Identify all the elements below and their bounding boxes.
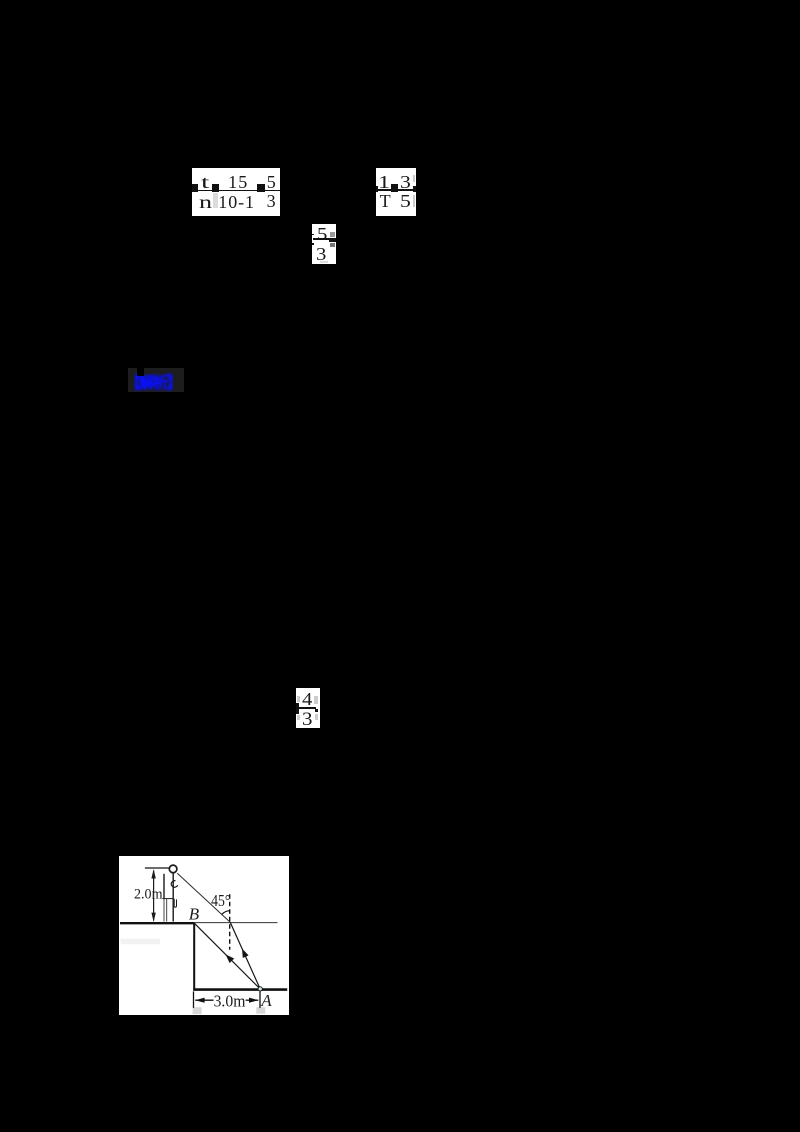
gray below bbox=[330, 243, 335, 247]
arrowhead on ray A-crossing bbox=[242, 949, 249, 959]
bottom gray strip bbox=[320, 261, 329, 264]
formula image 1: t/n = 15/(10-1) = 5/3 bbox=[192, 168, 281, 216]
top tick line bbox=[145, 867, 170, 869]
svg-text:B: B bbox=[189, 905, 200, 924]
angle arc bbox=[222, 911, 230, 915]
body line bbox=[172, 873, 174, 921]
denominator 3 bbox=[302, 710, 312, 729]
left tick below bbox=[193, 992, 195, 1009]
formula image 2: 1/T = 3/5 bbox=[376, 168, 416, 216]
denominator n bbox=[199, 193, 212, 211]
black notch bbox=[137, 368, 145, 376]
equals blob 2 bbox=[212, 184, 219, 192]
denominator T bbox=[380, 192, 391, 210]
equals blob 1 (left edge) bbox=[192, 184, 198, 192]
faint gray smear left cliff area bbox=[121, 939, 161, 945]
leg loop bbox=[174, 899, 176, 908]
blue label image bbox=[128, 368, 184, 393]
fraction bar bbox=[297, 707, 316, 709]
equals blob right edge bbox=[413, 186, 416, 191]
svg-text:2.0m: 2.0m bbox=[134, 887, 163, 903]
bottom thick line bbox=[193, 989, 287, 992]
svg-text:3.0m: 3.0m bbox=[214, 992, 246, 1011]
gray column upper right bbox=[413, 175, 415, 182]
numerator t bbox=[201, 173, 209, 191]
fraction bar bbox=[313, 238, 329, 240]
fraction bar bbox=[376, 189, 416, 190]
equals blob 3 bbox=[257, 184, 265, 192]
figure white background bbox=[119, 856, 289, 1015]
dark vertical line bbox=[163, 874, 165, 899]
head circle bbox=[169, 865, 177, 873]
equals blob left edge bbox=[376, 186, 378, 192]
denominator 5 bbox=[400, 192, 411, 210]
ground thick line bbox=[120, 922, 194, 924]
mid tick from m to body bbox=[162, 898, 173, 900]
cliff vertical line bbox=[193, 923, 195, 990]
fraction image 4/3 bbox=[296, 688, 320, 728]
gray column lower right bbox=[413, 195, 415, 207]
2.0m measure arrow bbox=[153, 871, 155, 921]
gray above bbox=[330, 232, 335, 237]
fraction image 5/3 bbox=[312, 224, 336, 264]
gray columns bbox=[297, 696, 300, 702]
3.0m measure arrow left part bbox=[195, 999, 213, 1001]
45 deg sight line from head bbox=[177, 874, 230, 923]
thin vertical line lower a bbox=[163, 899, 165, 922]
svg-text:A: A bbox=[260, 991, 272, 1010]
physics figure bbox=[119, 856, 289, 1015]
left tick a bbox=[312, 234, 314, 236]
3.0m measure arrow right part bbox=[246, 999, 259, 1001]
ray A to crossing bbox=[230, 922, 260, 989]
thin vertical line lower b bbox=[166, 899, 168, 922]
equals blob center bbox=[391, 184, 398, 192]
denominator 3 bbox=[267, 192, 276, 210]
numerator 1 bbox=[378, 173, 390, 191]
arrowhead on ray A-B bbox=[226, 955, 235, 964]
fraction bar bbox=[192, 190, 281, 191]
bottom gray artifact squares bbox=[193, 1007, 202, 1014]
numerator 15 bbox=[228, 173, 248, 191]
left tick b bbox=[312, 243, 314, 245]
ray A to B bbox=[194, 923, 260, 989]
left equals blob bbox=[296, 703, 299, 714]
thin surface line bbox=[193, 922, 277, 924]
denominator 10-1 bbox=[218, 193, 255, 211]
numerator 5 bbox=[317, 225, 327, 243]
point A marker bbox=[258, 987, 262, 991]
right tick below bbox=[259, 992, 261, 1009]
numerator 5 bbox=[267, 173, 276, 191]
dashed normal line bbox=[229, 895, 231, 951]
denominator 3 bbox=[316, 245, 326, 263]
svg-text:45°: 45° bbox=[211, 891, 230, 910]
arm hook bbox=[171, 881, 178, 888]
right black blob bbox=[329, 238, 336, 242]
right dot bbox=[315, 709, 318, 712]
numerator 4 bbox=[302, 690, 312, 708]
gray artifact under blob2 bbox=[213, 193, 219, 209]
numerator 3 bbox=[400, 173, 411, 191]
